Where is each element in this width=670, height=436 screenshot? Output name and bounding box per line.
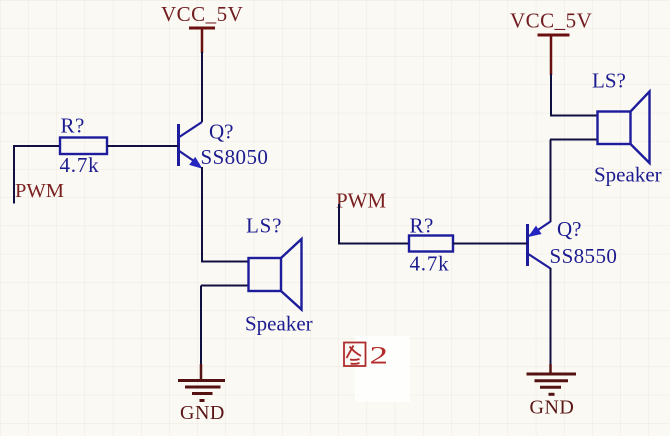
collector slant: [528, 254, 551, 269]
transistor Q1 SS8050 (NPN, left): [179, 122, 203, 169]
svg-text:R?: R?: [410, 214, 434, 238]
svg-text:PWM: PWM: [15, 180, 64, 202]
wire: PWM to resistor (left): [13, 145, 61, 147]
svg-text:Q?: Q?: [209, 120, 234, 144]
base bar: [177, 124, 180, 166]
wire: VCC down to speaker (right): [550, 74, 552, 116]
svg-text:VCC_5V: VCC_5V: [510, 9, 592, 33]
svg-text:GND: GND: [530, 397, 575, 419]
wire: VCC to Q? collector (left): [201, 52, 203, 122]
resistor R? 4.7k (left): [60, 138, 107, 155]
svg-text:LS?: LS?: [592, 69, 626, 93]
svg-text:4.7k: 4.7k: [410, 252, 450, 276]
wire: speaker pin 2 to GND run (left): [201, 285, 249, 287]
collector slant: [179, 122, 203, 138]
emitter slant with arrow: [179, 151, 200, 165]
power port VCC_5V (left) stub: [201, 28, 204, 53]
wire: to speaker pin 1 (right): [550, 115, 598, 117]
svg-text:LS?: LS?: [246, 214, 282, 238]
wire: emitter down to speaker (left): [201, 167, 203, 262]
svg-text:PWM: PWM: [336, 189, 387, 213]
svg-text:Speaker: Speaker: [245, 312, 313, 336]
wire: PWM to resistor (right): [338, 243, 410, 245]
wire: resistor to base (left): [107, 145, 179, 147]
svg-text:Speaker: Speaker: [594, 163, 662, 187]
base bar: [526, 224, 529, 266]
svg-text:2: 2: [370, 341, 389, 370]
svg-text:R?: R?: [61, 114, 85, 138]
svg-text:SS8550: SS8550: [550, 244, 618, 268]
svg-text:GND: GND: [180, 402, 225, 424]
caption 图2: [344, 341, 388, 370]
wire: speaker to emitter (right): [550, 140, 552, 223]
wire: resistor to base (right): [453, 243, 528, 245]
transistor Q2 SS8550 (PNP, right): [528, 222, 551, 269]
emitter slant with arrow toward base: [529, 222, 551, 237]
wire: speaker pin 2 down (right): [550, 139, 598, 141]
svg-text:SS8050: SS8050: [201, 145, 269, 169]
speaker LS? (right): [598, 92, 650, 164]
wire: to speaker pin 1 (left): [201, 261, 249, 263]
wire: collector down to ground (right): [550, 268, 552, 366]
ground symbol (right): [527, 364, 577, 394]
svg-text:4.7k: 4.7k: [60, 153, 100, 177]
ground symbol (left): [178, 364, 225, 401]
power port VCC_5V (right) stub: [550, 35, 553, 75]
white patch behind 图2: [355, 336, 410, 402]
resistor R? 4.7k (right): [409, 236, 453, 252]
power port VCC_5V (right) bar: [538, 34, 570, 37]
wire: PWM stub vertical (right): [338, 204, 340, 244]
svg-text:VCC_5V: VCC_5V: [161, 2, 243, 26]
power port VCC_5V (left) bar: [189, 27, 215, 30]
wire: down to ground (left): [200, 286, 202, 367]
svg-text:Q?: Q?: [557, 217, 582, 241]
speaker LS? (left): [249, 239, 302, 310]
wire: PWM input vertical (left): [13, 145, 15, 204]
